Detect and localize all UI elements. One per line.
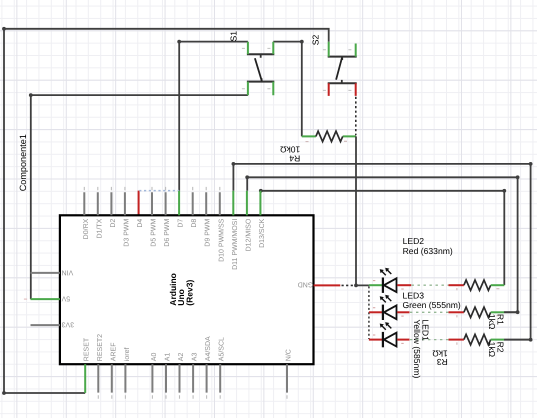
resistor row 1 (to D13) [449,280,505,290]
svg-text:RESET: RESET [84,337,91,361]
svg-text:D11 PWM/MOSI: D11 PWM/MOSI [231,219,239,270]
svg-text:A1: A1 [165,353,172,362]
svg-text:LED3: LED3 [403,290,425,300]
node bend bus1 right [529,162,533,166]
svg-text:D7: D7 [178,219,185,228]
LED D2 (red 633nm) row 1 [369,268,411,293]
switch S1 [228,31,274,95]
ratsnest D4 to D7 (blue dashed) [139,190,179,192]
svg-text:LED2: LED2 [403,236,425,246]
svg-text:D2: D2 [110,219,117,228]
pin D7 green stub [178,191,180,216]
svg-text:D6 PWM: D6 PWM [164,219,171,247]
pin RESET green stub [84,364,86,393]
svg-text:A3: A3 [192,353,199,362]
wire D13 to top resistor row [261,191,505,285]
node bend bus3 right [502,189,506,193]
svg-text:ioref: ioref [123,348,131,362]
svg-text:A5/SCL: A5/SCL [218,337,226,361]
svg-text:D12/MISO: D12/MISO [244,218,252,251]
node bend D11 [232,162,236,166]
ratsnest S2 to R4 (dotted) [355,97,357,135]
pin D13 green stub [259,191,261,216]
svg-text:D10 PWM/SS: D10 PWM/SS [217,218,225,262]
svg-text:Red (633nm): Red (633nm) [403,246,453,256]
svg-text:Componente1: Componente1 [18,134,28,191]
node bend D12 [245,175,249,179]
wire R4 to LED junction [356,136,369,285]
pin 5V green stub [31,298,60,300]
svg-text:S1: S1 [228,31,238,42]
svg-text:D13/SCK: D13/SCK [258,218,266,248]
resistor R4 10k [279,131,356,163]
pin D11 green stub [232,191,234,216]
svg-text:D0/RX: D0/RX [82,218,90,239]
node bend bus2 bottom [516,310,520,314]
svg-text:VIN: VIN [62,268,74,275]
node bend D13 [259,189,263,193]
pins bottom (gray stubs) [98,364,287,392]
pin terminal ticks top [84,187,220,190]
wire S1 to R4 [273,42,302,137]
ratsnest LED1 to resistor (green dashed) [410,339,448,341]
switch S2 [310,34,356,95]
svg-text:A2: A2 [178,353,185,362]
pin labels top [82,218,266,270]
node bend bus1 bottom [529,338,533,342]
svg-text:A4/SDA: A4/SDA [204,336,212,361]
pins left (gray stubs) [31,273,60,325]
pin terminal tick 5V [24,298,27,300]
pin D12 green stub [246,191,248,216]
svg-text:D8: D8 [191,219,198,228]
resistor R1 1k (row 2) [449,307,518,330]
node bend bus2 right [516,175,520,179]
Arduino U1 body [60,215,314,364]
wire D11 to R2 row [233,164,530,340]
svg-text:5V: 5V [61,295,70,302]
LED D1 (yellow 585nm) row 3 [369,322,410,347]
pin labels bottom [84,334,293,361]
node junction D7 [177,40,181,44]
wire D12 to R1 row [247,177,517,312]
svg-text:D1/TX: D1/TX [95,218,103,238]
svg-text:Green (555nm): Green (555nm) [403,300,461,310]
svg-text:D3 PWM: D3 PWM [123,219,130,247]
svg-text:D5 PWM: D5 PWM [151,219,158,247]
svg-text:S2: S2 [310,34,320,45]
wire Componente1 net (outer loop) [4,29,329,393]
wire 5V net [31,95,248,299]
svg-text:AREF: AREF [110,343,117,362]
wire GND (red) [314,284,341,286]
node bend bottom-left [2,391,6,395]
svg-text:D9 PWM: D9 PWM [205,219,212,247]
pin labels left and right [61,268,313,327]
ratsnest LED2 to resistor (green dashed) [412,284,449,286]
node junction S1-R4 [300,40,304,44]
ratsnest GND (dotted) [342,284,356,286]
wire D4 (red stub wire) [138,191,140,216]
node bend 5V [29,93,33,97]
ratsnest LED3 to resistor (green dashed) [410,311,448,313]
svg-text:3V3: 3V3 [62,321,75,328]
pin terminal ticks bottom [98,395,287,398]
pins top (gray stubs) [84,192,220,215]
svg-text:RESET2: RESET2 [97,334,104,361]
node bend top-left [2,27,6,31]
svg-text:GND: GND [298,281,314,288]
LED D3 (green 555nm) row 2 [369,295,410,320]
resistor R2 1k (row 3) [449,334,531,357]
ratsnest LED anodes (dotted vertical) [368,286,370,339]
svg-text:N/C: N/C [285,349,293,361]
wire S1 to D7 [179,42,248,191]
node junction GND-LED [354,284,358,288]
svg-text:D4: D4 [137,219,144,228]
svg-text:A0: A0 [151,353,158,362]
